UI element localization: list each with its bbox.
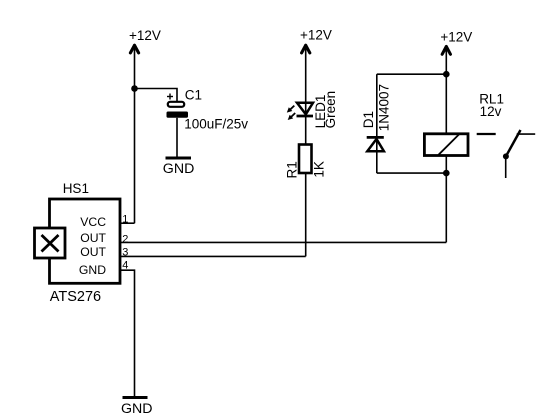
svg-text:+12V: +12V	[300, 28, 332, 43]
power +12V symbol (rail 1, left)	[129, 28, 161, 53]
capacitor C1 (polarized)	[167, 94, 189, 118]
node: junction of rail 1 and C1 branch	[131, 85, 138, 92]
node: switch pole dot	[503, 153, 509, 159]
relay contact switch: lever	[506, 130, 521, 156]
svg-text:1K: 1K	[311, 161, 326, 178]
wire: D1 branch top horizontal	[377, 73, 447, 75]
svg-text:OUT: OUT	[80, 231, 106, 245]
wire: C1 bottom to ground	[176, 118, 178, 157]
svg-text:4: 4	[122, 260, 128, 272]
wire: junction to C1 top	[135, 89, 178, 104]
power +12V symbol (rail 2, middle)	[300, 28, 332, 53]
wire: D1 branch bottom horizontal to junction	[377, 172, 447, 174]
wire: pin 4 stub then down to ground	[120, 270, 135, 397]
wire: rail 2 vertical from arrow through LED1/R1 down to pin 3 level	[305, 46, 307, 256]
wire: rail 1 vertical from +12V arrow down to pin 1	[134, 46, 136, 223]
wire: rail 3 vertical from arrow through relay coil down to pin 2 level	[445, 47, 447, 242]
node: junction of rail 3 and D1 branch (top)	[443, 71, 450, 78]
node: junction of rail 3 and D1 branch (bottom)	[443, 170, 450, 177]
sensor mark: square with X on left edge	[35, 228, 66, 258]
svg-text:GND: GND	[121, 401, 153, 417]
LED LED1	[287, 103, 313, 120]
svg-text:3: 3	[122, 247, 128, 259]
svg-text:GND: GND	[79, 263, 106, 277]
svg-text:VCC: VCC	[80, 215, 106, 229]
svg-text:2: 2	[122, 233, 128, 245]
IC HS1 (hall sensor ATS276) body	[50, 199, 121, 283]
relay contact switch: right fixed contact	[517, 133, 536, 135]
svg-text:C1: C1	[185, 88, 202, 103]
svg-text:GND: GND	[163, 161, 195, 177]
wire: pin 2 long horizontal to relay branch	[120, 241, 446, 243]
wire: pin 3 horizontal to R1 branch	[120, 255, 306, 257]
svg-text:OUT: OUT	[80, 245, 106, 259]
ground (bottom, pin 4)	[121, 398, 153, 418]
power +12V symbol (rail 3, right)	[440, 29, 472, 54]
svg-text:HS1: HS1	[63, 181, 89, 196]
diode D1 (1N4007, cathode up)	[367, 137, 384, 151]
svg-text:Green: Green	[323, 91, 338, 129]
svg-text:+12V: +12V	[129, 28, 161, 43]
svg-text:12v: 12v	[480, 104, 502, 119]
svg-text:100uF/25v: 100uF/25v	[184, 117, 248, 132]
ground (C1 branch)	[163, 158, 195, 177]
resistor R1	[299, 145, 312, 174]
svg-text:R1: R1	[284, 161, 299, 178]
svg-text:D1: D1	[361, 111, 376, 128]
relay coil RL1	[424, 134, 468, 156]
svg-text:+12V: +12V	[440, 29, 472, 44]
wire: switch pole stub	[505, 156, 507, 178]
wire: pin 1 stub (box to rail 1)	[120, 222, 135, 224]
svg-text:1: 1	[122, 213, 128, 225]
wire: D1 branch vertical	[376, 74, 378, 173]
svg-text:ATS276: ATS276	[50, 289, 101, 305]
svg-text:1N4007: 1N4007	[377, 84, 392, 131]
relay contact switch: left fixed contact	[477, 133, 496, 135]
